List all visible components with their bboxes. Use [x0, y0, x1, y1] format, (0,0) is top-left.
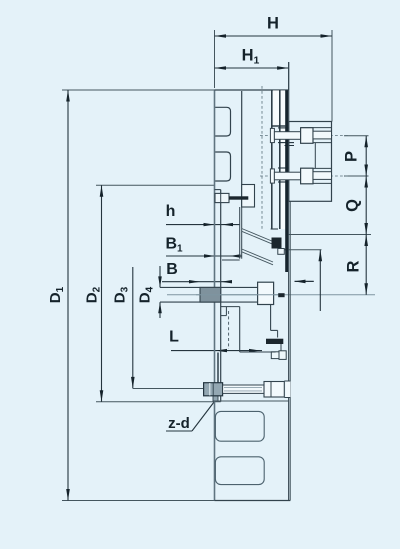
z-d bolt rear notch: [286, 381, 291, 398]
centerline (chuck axis): [167, 294, 375, 296]
wedge tooth (dark): [272, 238, 282, 249]
inner cylinder cap: [271, 228, 278, 230]
z-d bolt shank: [223, 385, 264, 393]
dimension B1: [165, 236, 242, 258]
jaw screw head: [215, 193, 229, 202]
body rear edge inner line: [289, 201, 291, 500]
hidden line lower guideway: [228, 311, 230, 349]
exterior step line: [215, 400, 289, 402]
chuck body front face: [214, 90, 216, 501]
dimension h: [166, 203, 240, 226]
stud centerline 1 (dashed): [260, 135, 350, 137]
svg-text:H: H: [267, 15, 279, 33]
front face slot 1: [215, 107, 230, 136]
svg-text:Q: Q: [344, 199, 362, 212]
z-d bolt centerline extension: [133, 388, 204, 390]
stud 1: [270, 128, 331, 144]
stud 2: [270, 168, 331, 184]
small dark rect on axis: [278, 293, 284, 297]
lower guideway: [221, 306, 240, 308]
rear white column 2: [281, 90, 286, 229]
stud boss lines: [278, 127, 289, 129]
z-d bolt head: [204, 383, 223, 396]
center plug: [258, 282, 274, 304]
dimension P: [343, 136, 369, 176]
adapter plate: [289, 122, 332, 202]
T-slot boss edge (exterior): [217, 353, 219, 384]
rear thick black band: [285, 90, 288, 272]
body top edge: [215, 89, 289, 91]
drive key block: [200, 287, 221, 302]
jaw screw threaded shank: [229, 196, 248, 199]
label z-d with leader: [166, 401, 215, 432]
dimension D2: [84, 185, 221, 402]
svg-text:P: P: [343, 151, 361, 162]
dimension H1: [215, 47, 289, 91]
wedge small box: [278, 249, 285, 255]
lower small boxes: [271, 352, 279, 359]
front face slot 2: [215, 152, 230, 181]
dimension L: [169, 329, 262, 353]
bolt circle line (dashed vertical): [261, 86, 263, 230]
lower rear column: [270, 305, 272, 331]
z-d bolt head tab: [213, 396, 218, 401]
column cap: [272, 125, 287, 127]
svg-text:R: R: [345, 260, 363, 272]
rear cylinder wall vertical: [241, 91, 243, 207]
jaw screw housing box: [242, 185, 255, 208]
z-d bolt rear block: [264, 382, 284, 398]
dimension Q: [288, 176, 371, 235]
plate counterbore lines: [301, 127, 332, 129]
rear white column 1: [273, 90, 279, 126]
dimension D4: [137, 266, 162, 318]
svg-text:z-d: z-d: [168, 415, 190, 432]
dimension D1: [47, 90, 215, 501]
svg-text:h: h: [166, 203, 176, 220]
guideway bottom line: [220, 190, 222, 402]
dimension R: [345, 235, 369, 295]
dimension B: [162, 261, 232, 283]
svg-text:L: L: [169, 329, 179, 346]
body bottom edge: [215, 500, 291, 502]
lower dark band: [266, 339, 283, 344]
dimension t: [283, 250, 322, 311]
dimension D3: [112, 267, 135, 388]
body rear edge: [288, 62, 290, 501]
wedge guide verticals: [239, 207, 241, 259]
stud centerline 2 (dashed): [260, 175, 350, 177]
exterior jaw cutout 1: [215, 411, 264, 441]
rear cylinder wall (inner): [271, 90, 273, 229]
dimension H: [215, 15, 333, 122]
svg-text:B: B: [166, 261, 178, 278]
wedge incline lines: [242, 229, 273, 242]
centerline overlay across key and plug: [196, 294, 278, 296]
center bore lines: [160, 286, 258, 288]
guideway cap: [215, 189, 221, 191]
exterior jaw cutout 2: [215, 457, 264, 485]
